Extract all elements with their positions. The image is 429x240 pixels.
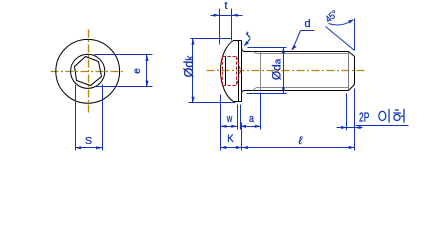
hex socket (front view) (75, 57, 102, 86)
thread minor line top (253, 52, 349, 54)
extension line below apex (220, 95, 222, 151)
svg-text:r: r (243, 29, 254, 41)
svg-text:2P: 2P (359, 109, 369, 124)
svg-text:Ødk: Ødk (182, 55, 196, 78)
dimension dk extension lines (189, 39, 236, 103)
dimension l arrows (242, 146, 355, 149)
centerline horizontal (front view) (51, 71, 126, 73)
svg-text:d: d (304, 18, 310, 30)
svg-text:K: K (227, 133, 234, 145)
thread minor line bottom (253, 88, 349, 91)
fillet under head top (242, 49, 245, 52)
hidden socket drill point (side view) (237, 57, 241, 86)
tip chamfer top (349, 52, 355, 57)
dimension S extension lines (76, 85, 103, 151)
extension line below thread start (260, 93, 262, 130)
svg-text:S: S (85, 135, 92, 147)
socket opening edge (side view) (225, 57, 227, 86)
dimension t arrows (214, 14, 238, 17)
dimension t line (211, 15, 243, 17)
dimension 45deg arrow (348, 19, 354, 23)
extension line K right (241, 123, 243, 151)
end face (354, 57, 356, 85)
fillet under head bottom (242, 91, 245, 93)
svg-text:Øda: Øda (270, 58, 284, 80)
dimension da arrows (282, 47, 285, 93)
dimension S arrows (75, 146, 102, 149)
dimension K and l line (221, 147, 355, 149)
dimension t extension lines (220, 9, 232, 45)
head outer circle (front view) (56, 39, 120, 103)
chamfer line at tip (348, 52, 350, 91)
dimension e line (146, 55, 148, 87)
hangul "i" glyph (379, 109, 389, 123)
svg-text:e: e (132, 68, 143, 74)
dimension S line (76, 147, 103, 149)
dimension dk arrows (191, 39, 194, 103)
tip chamfer bottom (349, 85, 355, 91)
svg-text:45°: 45° (323, 8, 340, 25)
extension lines below head face (238, 105, 241, 130)
svg-text:t: t (224, 0, 227, 12)
dimension w line (221, 126, 238, 128)
dimension K arrows (220, 146, 242, 149)
svg-text:ℓ: ℓ (298, 135, 303, 147)
dimension da extension lines (247, 48, 287, 94)
extension line end face down (354, 89, 356, 151)
svg-text:w: w (226, 113, 232, 125)
dimension da line (283, 48, 285, 94)
dimension 45deg arc (329, 21, 353, 25)
head outline (side view) (221, 41, 242, 102)
dimension 2P arrows (341, 126, 361, 129)
thread runout line near head (260, 52, 262, 91)
hidden hex socket (side view) (223, 57, 237, 86)
dimension e arrows (145, 55, 148, 87)
hangul "ha" glyph (393, 109, 404, 123)
dimension 2P line with tails (337, 126, 409, 128)
dimension 45deg extension lines (326, 19, 355, 51)
extension line 2P left (346, 94, 348, 131)
centerline axis (side view) (207, 70, 367, 72)
centerline vertical (front view) (88, 30, 90, 113)
dimension a arrows (240, 125, 261, 128)
shank major diameter top (244, 51, 349, 53)
dimension a line (241, 126, 261, 128)
shank major diameter bottom (244, 90, 349, 92)
dimension e extension lines (95, 55, 153, 87)
socket circle (front view) (71, 54, 105, 88)
dimension w arrows (220, 125, 237, 128)
svg-text:a: a (249, 113, 255, 125)
dimension dk line (192, 39, 194, 103)
